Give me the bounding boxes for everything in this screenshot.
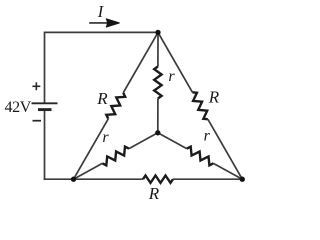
svg-text:42V: 42V bbox=[5, 99, 32, 116]
battery 42V: short negative plate bbox=[38, 108, 52, 111]
wire: top horizontal, battery + to node A bbox=[45, 31, 159, 33]
node B (bottom-left junction) bbox=[71, 177, 76, 182]
resistor r (D to C) bbox=[158, 133, 243, 179]
wire: bottom horizontal, to node B bbox=[44, 178, 74, 180]
resistor r (vertical, A to D) bbox=[154, 32, 161, 132]
resistor r (D to B) bbox=[74, 133, 158, 179]
battery + polarity mark bbox=[32, 82, 40, 90]
resistor R (bottom, B to C) bbox=[74, 176, 243, 183]
node C (bottom-right junction) bbox=[240, 177, 245, 182]
wire: left vertical lower, battery - down to bottom bbox=[44, 110, 46, 180]
node A (top junction) bbox=[155, 30, 160, 35]
resistor R (right diagonal, A to C) bbox=[158, 32, 242, 179]
battery 42V: long positive plate bbox=[32, 102, 58, 104]
svg-text:r: r bbox=[168, 68, 175, 85]
battery - polarity mark bbox=[33, 120, 42, 122]
svg-text:R: R bbox=[96, 89, 108, 108]
svg-text:R: R bbox=[208, 88, 220, 107]
current arrow for I bbox=[89, 19, 119, 27]
svg-text:R: R bbox=[148, 184, 160, 203]
svg-text:I: I bbox=[97, 2, 105, 21]
svg-text:r: r bbox=[204, 127, 211, 144]
resistor R (left diagonal, A to B) bbox=[74, 32, 159, 179]
wire: left vertical upper, down to battery + plate bbox=[44, 32, 46, 104]
node D (center junction) bbox=[155, 130, 160, 135]
svg-text:r: r bbox=[102, 129, 109, 146]
